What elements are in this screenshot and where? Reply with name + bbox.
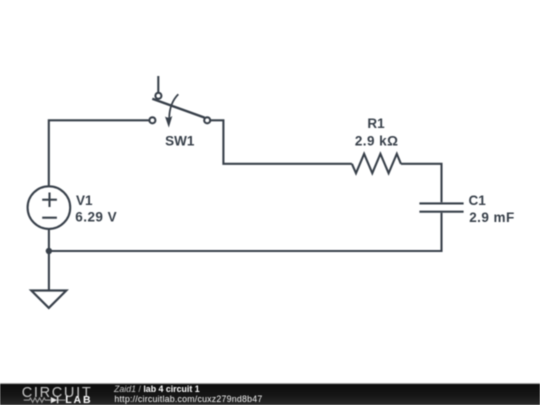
wire junction to ground xyxy=(48,251,50,291)
ground symbol xyxy=(31,291,66,308)
V1 plus sign xyxy=(42,193,57,208)
V1 minus sign xyxy=(42,217,57,219)
svg-text:LAB: LAB xyxy=(65,394,92,405)
svg-text:SW1: SW1 xyxy=(165,133,195,148)
switch SW1 top terminal circle xyxy=(155,93,161,99)
wire from R1 to C1 top xyxy=(401,164,442,203)
svg-text:6.29 V: 6.29 V xyxy=(75,210,117,225)
capacitor C1 top plate xyxy=(419,202,463,204)
footer bar xyxy=(0,384,540,405)
switch SW1 left terminal circle xyxy=(149,117,155,123)
resistor R1 xyxy=(352,154,401,173)
switch SW1 actuation arrow xyxy=(165,94,178,127)
footer logo mini resistor-diode drawing xyxy=(24,397,66,403)
svg-text:http://circuitlab.com/cuxz279n: http://circuitlab.com/cuxz279nd8b47 xyxy=(114,394,262,404)
switch SW1 right terminal circle xyxy=(204,117,210,123)
svg-text:V1: V1 xyxy=(76,193,93,208)
svg-text:Zaid1 / lab 4 circuit 1: Zaid1 / lab 4 circuit 1 xyxy=(113,384,200,394)
wire from C1 bottom along bottom rail to junction xyxy=(49,213,442,251)
junction node dot xyxy=(46,248,52,254)
svg-text:R1: R1 xyxy=(367,116,385,131)
svg-text:2.9 mF: 2.9 mF xyxy=(469,210,514,225)
wire V1 bottom to junction xyxy=(48,230,50,251)
wire from SW1 right terminal to R1 xyxy=(210,120,352,164)
capacitor C1 bottom plate xyxy=(419,211,463,213)
svg-text:C1: C1 xyxy=(469,193,487,208)
wire switch top stub xyxy=(157,76,159,92)
svg-text:2.9 kΩ: 2.9 kΩ xyxy=(355,133,399,148)
footer bar top edge xyxy=(0,383,540,384)
voltage source V1 circle xyxy=(28,186,71,229)
wire from SW1 left terminal to V1 top xyxy=(49,120,150,186)
switch SW1 blade xyxy=(152,99,204,118)
